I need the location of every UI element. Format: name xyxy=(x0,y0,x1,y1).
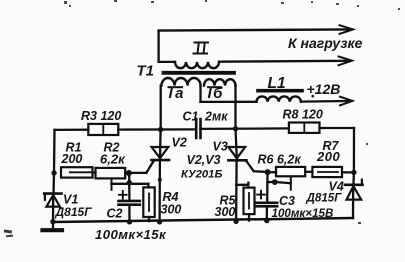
thyristor V3 cathode bar xyxy=(228,159,246,162)
label L1 xyxy=(268,75,286,92)
label 100мк×15к (C2) xyxy=(95,227,167,242)
svg-text:R8 120: R8 120 xyxy=(283,108,323,122)
wire winding Ib right end down to C1 node xyxy=(234,86,236,129)
page artifact bottom left edge xyxy=(4,229,13,237)
wire left column to V1 xyxy=(52,173,55,195)
wire R6 to R7 xyxy=(305,171,312,173)
svg-text:6,2к: 6,2к xyxy=(100,152,126,167)
svg-text:2мк: 2мк xyxy=(204,110,228,124)
label Ia xyxy=(169,85,187,102)
label V3 xyxy=(213,140,228,154)
wire R3 to C1 with V2 anode node xyxy=(118,128,196,131)
wire right column to V4 xyxy=(352,172,355,186)
wire V3 gate horizontal to node xyxy=(254,170,268,173)
svg-text:+12В: +12В xyxy=(307,81,341,97)
node dot C3 bottom xyxy=(264,218,269,223)
capacitor C2 bottom plate xyxy=(119,203,140,206)
label R6 6,2к xyxy=(258,153,302,167)
power mark inside R1 xyxy=(70,171,91,173)
label К нагрузке xyxy=(288,35,363,51)
thyristor V3 cathode lead to bottom xyxy=(235,160,238,221)
wire R1 to R2 xyxy=(93,171,96,173)
transformer T1 winding Ib xyxy=(204,79,236,85)
wire R6 left lead xyxy=(268,171,276,173)
svg-text:Д815Г: Д815Г xyxy=(306,192,343,205)
thyristor V2 triangle xyxy=(152,147,169,158)
label Д815Г (V4) xyxy=(306,192,343,205)
capacitor C3 top plate xyxy=(255,202,277,205)
label R4 xyxy=(163,190,179,204)
label R1 xyxy=(66,141,82,155)
svg-text:300: 300 xyxy=(215,205,236,219)
overline of Ib xyxy=(208,86,221,88)
svg-text:200: 200 xyxy=(316,149,340,164)
power mark inside R4 xyxy=(148,194,150,212)
capacitor C2 top plate xyxy=(119,200,140,203)
zener V1 cathode hook xyxy=(44,194,46,200)
label 200 (R7) xyxy=(316,149,340,164)
capacitor C1 right plate xyxy=(199,119,202,138)
zener V4 cathode bar xyxy=(345,184,363,187)
wire C2 bottom lead xyxy=(128,205,130,222)
wire C2 top lead xyxy=(128,173,130,200)
thyristor V3 gate diagonal xyxy=(246,161,254,171)
wire V2 gate diagonal xyxy=(146,161,153,173)
wire main top row left segment xyxy=(55,129,89,131)
label V2 xyxy=(172,136,187,150)
resistor R6 xyxy=(276,167,305,176)
wire winding Ia left end down to anode node of V2 xyxy=(160,86,162,130)
label 2мк xyxy=(204,110,228,124)
svg-text:КУ201Б: КУ201Б xyxy=(181,169,222,181)
wire R4 bottom lead xyxy=(148,217,150,221)
label C3 xyxy=(279,194,295,208)
svg-text:T1: T1 xyxy=(137,63,155,80)
zener V4 triangle xyxy=(347,186,362,199)
wire R7 right lead xyxy=(342,171,354,173)
wire L1 to +12V arrow xyxy=(301,100,348,103)
label 300 (R4) xyxy=(161,203,182,217)
label V2,V3 xyxy=(187,153,221,167)
node dot C2 bottom xyxy=(127,219,132,224)
capacitor C3 bottom plate xyxy=(255,205,277,208)
wire top output line to load xyxy=(159,29,348,30)
label V1 xyxy=(63,193,78,207)
wire V1 to bottom line xyxy=(52,195,55,222)
resistor R8 xyxy=(289,123,320,133)
node dot R1 left xyxy=(51,170,56,175)
arrowhead К нагрузке top xyxy=(340,25,354,34)
wire C3 bottom lead xyxy=(266,206,268,220)
zener V1 cathode bar xyxy=(44,192,61,195)
power mark inside R5 xyxy=(248,193,250,209)
thyristor V2 cathode bar xyxy=(152,159,170,162)
wire R5 top lead to V3 cathode line xyxy=(236,182,248,188)
svg-text:L1: L1 xyxy=(268,75,286,92)
wire R4 top lead xyxy=(147,184,149,188)
plus sign C2 xyxy=(119,191,127,199)
svg-text:Д815Г: Д815Г xyxy=(55,205,93,219)
label R2 xyxy=(104,141,120,155)
resistor R1 xyxy=(61,167,93,177)
plus sign C3 xyxy=(257,191,265,199)
thyristor V3 anode lead xyxy=(236,129,237,159)
resistor R2 xyxy=(96,168,126,179)
label C2 xyxy=(107,207,123,221)
wire ground stub xyxy=(52,222,54,229)
ground bar xyxy=(43,228,63,232)
arrowhead +12V xyxy=(340,97,353,106)
thyristor V2 anode lead xyxy=(159,130,162,159)
svg-text:100мк×15к: 100мк×15к xyxy=(95,227,167,242)
label R7 xyxy=(323,139,340,153)
wire right column upper xyxy=(353,128,355,172)
wire R2 to gate node xyxy=(125,172,129,174)
thyristor V2 cathode lead to bottom xyxy=(158,160,161,222)
trimmer R6 tap stub xyxy=(290,176,292,189)
label КУ201Б xyxy=(181,169,222,181)
resistor R4 xyxy=(143,187,154,217)
label II (winding II) xyxy=(194,43,209,54)
wire V4 to bottom right corner xyxy=(352,186,355,218)
node dot V2 anode at top row xyxy=(158,127,163,132)
zener V4 cathode hook xyxy=(361,180,363,185)
label 100мк×15В (C3) xyxy=(272,207,334,220)
label V4 xyxy=(329,180,344,194)
wire bottom line xyxy=(53,218,353,222)
resistor R7 xyxy=(312,167,342,177)
svg-text:200: 200 xyxy=(61,152,83,166)
wire gate node horizontal xyxy=(129,172,146,174)
wire left vertical from top line to winding II xyxy=(157,31,159,62)
label 200 (R1) xyxy=(61,152,83,166)
wire left column upper xyxy=(53,130,56,173)
arrowhead second output xyxy=(339,57,353,66)
node dot R7 right column xyxy=(351,170,356,175)
label Д815Г (V1) xyxy=(55,205,93,219)
node dot V3 cathode bottom xyxy=(233,219,238,224)
power mark inside R8 xyxy=(303,124,305,131)
inductor L1 winding xyxy=(257,96,301,101)
transformer T1 winding Ia xyxy=(162,78,201,86)
label R5 xyxy=(220,194,237,208)
inductor L1 core bar xyxy=(258,89,302,93)
wire center tap of T1 down xyxy=(199,86,201,102)
label 300 (R5) xyxy=(215,205,236,219)
svg-text:300: 300 xyxy=(161,203,182,217)
wire R8 to right top corner xyxy=(320,127,355,129)
svg-text:C1: C1 xyxy=(183,110,199,124)
svg-text:V3: V3 xyxy=(213,140,228,154)
wire winding II right lead (second output line) xyxy=(219,60,348,63)
label 6,2к (R2) xyxy=(100,152,126,167)
wire C3 top lead xyxy=(266,172,269,202)
resistor R3 xyxy=(88,124,118,135)
power mark inside R3 xyxy=(102,126,104,133)
transformer T1 winding II xyxy=(175,62,219,68)
node dot V2 gate junction xyxy=(126,170,132,176)
wire C1 to R8 with Ib node xyxy=(201,127,289,130)
svg-text:V2,V3: V2,V3 xyxy=(187,153,221,167)
label R3 120 xyxy=(81,109,121,123)
wire tap to C3 (right) xyxy=(267,182,290,183)
overline of Ia xyxy=(169,86,183,88)
wire tap to C2 and R4 xyxy=(112,183,149,185)
svg-text:C2: C2 xyxy=(107,207,123,221)
node dot V3 gate junction xyxy=(265,169,271,175)
wire winding II left lead xyxy=(159,61,175,63)
thyristor V3 triangle xyxy=(228,147,245,158)
wire R5 bottom lead xyxy=(248,214,250,220)
svg-text:R3 120: R3 120 xyxy=(81,109,121,123)
node dot Ib end at top row xyxy=(233,126,238,131)
svg-text:C3: C3 xyxy=(279,194,295,208)
label C1 xyxy=(183,110,199,124)
label R8 120 xyxy=(283,108,323,122)
zener V1 triangle xyxy=(46,195,60,207)
trimmer R2 tap stub xyxy=(111,178,113,189)
node dot V2 cathode bottom xyxy=(157,219,162,224)
node dot tap wire right xyxy=(272,179,278,185)
transformer T1 core xyxy=(164,71,235,75)
node dot tap-C2 crossing xyxy=(127,180,133,186)
svg-text:К нагрузке: К нагрузке xyxy=(288,35,363,51)
resistor R5 xyxy=(244,188,255,215)
page speckles top edge xyxy=(64,0,400,224)
svg-text:100мк×15В: 100мк×15В xyxy=(272,207,334,220)
node dot bottom left xyxy=(50,219,55,224)
svg-text:R6 6,2к: R6 6,2к xyxy=(258,153,302,167)
power mark inside R7 xyxy=(318,171,338,173)
capacitor C1 left plate xyxy=(195,119,198,138)
svg-text:V2: V2 xyxy=(172,136,187,150)
label Ib xyxy=(208,85,224,102)
label T1 xyxy=(137,63,155,80)
wire center tap to L1 xyxy=(201,101,257,103)
ink blob on V2 cathode lead xyxy=(158,178,162,182)
dot artifact under plus of 12V xyxy=(311,95,314,98)
label +12V xyxy=(307,81,341,97)
